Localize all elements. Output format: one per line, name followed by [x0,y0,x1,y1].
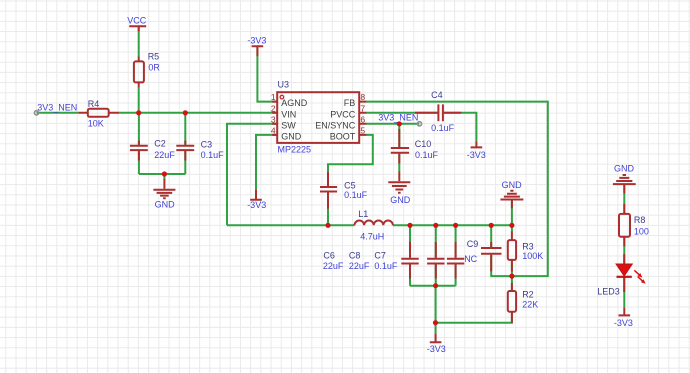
svg-text:C3: C3 [201,140,213,150]
junction C7 on rail [453,223,458,228]
wire GND symbol to rail at R3 [511,201,513,233]
svg-text:22uF: 22uF [323,261,344,271]
wire C2-C3 bottom to GND [139,174,185,180]
svg-text:C2: C2 [154,139,166,149]
svg-text:-3V3: -3V3 [467,150,486,160]
wire C3 branch [184,113,186,174]
wire cap bank bottom bus [410,285,456,287]
svg-text:R5: R5 [148,51,160,61]
ground GND under C10 [388,172,410,206]
capacitor C4 [415,90,461,133]
svg-text:4.7uH: 4.7uH [360,231,384,241]
wire PVCC pin7 through C4 to -3V3 [366,113,476,142]
resistor R2 [508,283,538,323]
svg-text:0.1uF: 0.1uF [344,190,368,200]
supply VCC [127,15,147,31]
svg-text:C10: C10 [415,139,432,149]
wire R2 bottom to -3V3 bus [436,312,512,323]
capacitor C9 [464,239,501,271]
svg-text:8: 8 [360,92,365,102]
svg-text:GND: GND [614,163,635,173]
svg-text:6: 6 [360,114,365,124]
junction C5 bottom on rail [325,223,330,228]
junction C3 row A [183,110,188,115]
junction C9 on rail [489,223,494,228]
wire C5 bottom to rail [327,193,329,226]
svg-text:1: 1 [271,92,276,102]
supply -3V3 at GND pin4 [247,190,266,210]
wire end dot left [34,111,38,115]
pin 4 GND [271,126,302,142]
resistor R4 [78,99,119,128]
svg-text:-3V3: -3V3 [614,318,633,328]
junction C6 on rail [407,223,412,228]
svg-text:GND: GND [390,195,411,205]
svg-text:VCC: VCC [127,15,147,25]
pin 6 EN/SYNC [315,114,365,130]
capacitor C5 [320,172,368,209]
svg-text:BOOT: BOOT [330,132,356,142]
junction FB divider node [509,274,514,279]
svg-text:FB: FB [344,98,356,108]
svg-text:4: 4 [271,126,276,136]
capacitor C2 [130,139,175,161]
junction -3V3 bus corner [433,320,438,325]
svg-text:C9: C9 [467,239,479,249]
svg-text:GND: GND [281,132,302,142]
wire C6 branch [409,225,411,285]
supply -3V3 under cap bank [427,334,446,354]
junction C8 on rail [433,223,438,228]
svg-text:22K: 22K [522,299,538,309]
wire C10 branch [398,124,400,172]
wire GND pin4 to -3V3 [256,135,277,199]
pin 2 VIN [271,103,296,119]
svg-text:100: 100 [634,226,649,236]
junction C10 at pin6 [397,121,402,126]
wire output rail left of L1 [227,224,355,226]
svg-text:3V3_NEN: 3V3_NEN [37,103,77,113]
svg-text:L1: L1 [358,209,368,219]
svg-text:5: 5 [360,126,365,136]
svg-text:-3V3: -3V3 [427,344,446,354]
resistor R8 [619,204,649,246]
svg-text:PVCC: PVCC [330,109,356,119]
svg-text:U3: U3 [278,79,290,89]
svg-text:0.1uF: 0.1uF [201,150,225,160]
op-amp U3 MP2225 IC body [277,79,359,154]
wire output rail right of L1 [393,224,512,226]
ground GND under C2/C3 [153,179,175,209]
pin 3 SW [271,114,296,130]
wire BOOT pin5 to C5 top [328,135,373,186]
resistor R5 [134,51,161,87]
capacitor C10 [391,129,439,164]
ground GND inverted above R8 [613,163,636,193]
svg-text:VIN: VIN [281,109,296,119]
svg-text:7: 7 [360,103,365,113]
IC pin leads [272,102,366,135]
junction VCC/R4/C2 row A [136,110,141,115]
svg-text:EN/SYNC: EN/SYNC [315,120,356,130]
svg-text:MP2225: MP2225 [278,144,312,154]
wire C9 branch [491,225,512,276]
svg-text:2: 2 [271,103,276,113]
svg-text:0.1uF: 0.1uF [415,150,439,160]
svg-text:C8: C8 [349,251,361,261]
svg-text:R8: R8 [634,215,646,225]
wire net 3V3_NEN row to VIN [37,112,277,114]
pin 7 PVCC [330,103,365,119]
pin 5 BOOT [330,126,366,142]
resistor R3 [508,232,543,272]
wire end dot pin6 [417,122,421,126]
svg-text:0.1uF: 0.1uF [431,123,455,133]
svg-text:R2: R2 [522,289,534,299]
svg-text:C7: C7 [374,251,386,261]
junction R3/GND on rail [509,223,514,228]
svg-text:R4: R4 [88,99,100,109]
svg-text:GND: GND [502,180,522,190]
svg-text:AGND: AGND [281,98,308,108]
wire LED to -3V3 [623,278,625,309]
svg-text:GND: GND [155,199,176,209]
capacitor C3 [176,140,224,161]
junction GND under C2/C3 [162,171,167,176]
svg-text:-3V3: -3V3 [247,200,266,210]
svg-text:3V3_NEN: 3V3_NEN [378,112,418,122]
wire C2 branch [138,113,140,174]
supply -3V3 under LED3 [614,308,633,328]
svg-text:10K: 10K [88,118,104,128]
svg-text:R3: R3 [522,241,534,251]
capacitor C6 [323,242,419,279]
wire C8 branch [435,225,437,285]
wire LED branch GND to R8 [623,185,625,214]
svg-text:C4: C4 [431,90,443,100]
wire R8 to LED [623,237,625,265]
wire bus to -3V3 corner [435,286,437,334]
svg-text:0.1uF: 0.1uF [374,261,398,271]
LED LED3 [597,254,645,296]
svg-text:0R: 0R [148,63,160,73]
svg-text:LED3: LED3 [597,287,620,297]
svg-text:22uF: 22uF [154,150,175,160]
wire R3 to R2 node [511,260,513,291]
wire -3V3 to AGND pin1 [257,47,276,101]
svg-text:22uF: 22uF [349,261,370,271]
svg-text:-3V3: -3V3 [247,36,266,46]
wire VCC column to row A [138,27,140,113]
capacitor C7 [374,242,464,279]
svg-text:SW: SW [281,120,296,130]
junction cap bank bus [433,283,438,288]
svg-text:C6: C6 [323,251,335,261]
ground GND inverted above R3 [500,180,523,208]
supply -3V3 at C4 [467,142,486,160]
pin 1 AGND [271,92,308,108]
wire C7 branch [455,225,457,285]
svg-text:100K: 100K [522,251,543,261]
supply -3V3 top at AGND [247,36,266,57]
wire SW pin3 to output rail [227,124,277,226]
wire FB pin8 to divider [366,102,548,277]
svg-text:3: 3 [271,114,276,124]
inductor L1 [355,209,393,241]
wire EN/SYNC pin6 net 3V3_NEN [366,123,419,125]
svg-text:NC: NC [464,254,477,264]
pin 8 FB [344,92,366,108]
capacitor C8 [349,242,445,279]
